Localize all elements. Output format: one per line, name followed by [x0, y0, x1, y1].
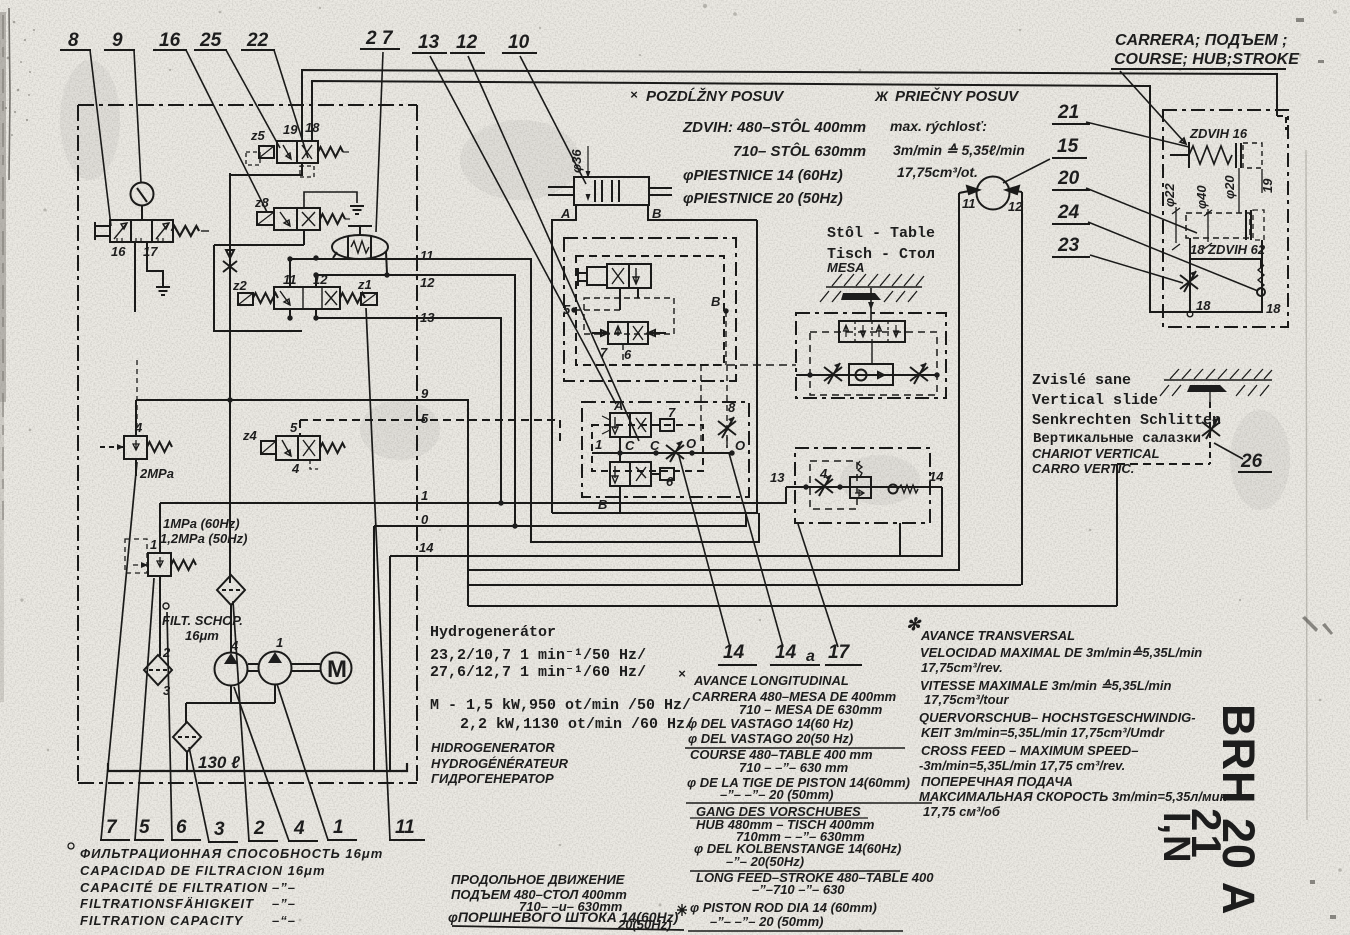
svg-text:18: 18: [1266, 301, 1281, 316]
svg-text:11: 11: [962, 196, 976, 211]
wire 14: [390, 487, 942, 556]
svg-text:3: 3: [163, 683, 171, 698]
valve 16/17 4-way manual: [95, 220, 209, 242]
svg-text:17,75cm³/tour: 17,75cm³/tour: [924, 692, 1009, 707]
svg-text:11: 11: [420, 248, 434, 263]
z2 valve bottom ports and loop: [290, 309, 316, 318]
svg-text:HYDROGÉNÉRATEUR: HYDROGÉNÉRATEUR: [431, 756, 569, 771]
svg-text:MESA: MESA: [827, 260, 865, 275]
bottom number row 7 5 6 3 2 4 1 11: [106, 817, 415, 840]
svg-text:CROSS FEED – MAXIMUM SPEED–: CROSS FEED – MAXIMUM SPEED–: [921, 743, 1138, 758]
scan artifact: left black bar: [0, 12, 6, 702]
svg-text:φ36: φ36: [569, 149, 584, 173]
svg-text:CAPACIDAD DE FILTRACION 16μm: CAPACIDAD DE FILTRACION 16μm: [80, 863, 326, 878]
svg-text:FILTRATION CAPACITY: FILTRATION CAPACITY: [80, 913, 244, 928]
svg-text:17: 17: [828, 642, 851, 663]
svg-text:19: 19: [283, 122, 298, 137]
right branch with spring: [1190, 259, 1261, 268]
svg-text:QUERVORSCHUB– HOCHSTGESCHWINDI: QUERVORSCHUB– HOCHSTGESCHWINDIG-: [919, 710, 1196, 725]
valve A (upper): [602, 413, 674, 437]
svg-text:–”–: –”–: [272, 896, 296, 911]
drive shafts: [248, 664, 320, 671]
svg-text:ФИЛЬТРАЦИОННАЯ СПОСОБНОСТЬ 16: ФИЛЬТРАЦИОННАЯ СПОСОБНОСТЬ 16μm: [80, 846, 383, 861]
FILT SCHOP note: [163, 603, 169, 609]
wire number labels at boundary: [419, 248, 435, 555]
leader 8: [90, 50, 111, 226]
leader 14a: [729, 453, 783, 647]
leader from CARRERA: [1120, 71, 1186, 144]
svg-text:1MPa (60Hz): 1MPa (60Hz): [163, 516, 240, 531]
svg-text:O: O: [735, 438, 745, 453]
throttle 8: [718, 417, 736, 438]
lower valve dash-dot box: [582, 402, 749, 497]
svg-text:16: 16: [159, 30, 181, 51]
svg-text:18: 18: [305, 120, 320, 135]
accumulator ports: [333, 252, 387, 273]
wire 9: [136, 400, 468, 606]
AVANCE TRANSVERSAL block: [906, 615, 1228, 819]
svg-text:AVANCE TRANSVERSAL: AVANCE TRANSVERSAL: [920, 628, 1075, 643]
svg-text:17,75 см³/об: 17,75 см³/об: [923, 804, 1001, 819]
svg-text:φ22: φ22: [1162, 183, 1177, 207]
svg-text:I,N: I,N: [1155, 812, 1197, 864]
pilot valve (top, with cylinder actuator): [578, 264, 651, 288]
valve z5 19 18: [246, 141, 349, 177]
svg-text:2MPa: 2MPa: [139, 466, 174, 481]
check valve with spring: [889, 485, 919, 494]
svg-text:Вертикальные салазки: Вертикальные салазки: [1033, 431, 1201, 447]
svg-text:A: A: [613, 398, 623, 413]
port B label: [723, 308, 728, 313]
leaders 21 20 24 23: [1057, 102, 1080, 256]
svg-text:13: 13: [418, 32, 440, 53]
svg-text:ПОПЕРЕЧНАЯ ПОДАЧА: ПОПЕРЕЧНАЯ ПОДАЧА: [921, 774, 1073, 789]
svg-text:14: 14: [775, 642, 797, 663]
relief valve 1 (1MPa): [125, 503, 196, 656]
pressure compensator: [850, 461, 871, 498]
Stol valve dash-dot box: [796, 313, 946, 398]
svg-text:6: 6: [666, 474, 674, 489]
svg-text:VELOCIDAD MAXIMAL DE 3m/min≙5: VELOCIDAD MAXIMAL DE 3m/min≙5,35L/min: [920, 645, 1202, 660]
svg-text:17: 17: [143, 244, 158, 259]
svg-text:PRIEČNY POSUV: PRIEČNY POSUV: [895, 87, 1020, 105]
svg-text:φ40: φ40: [1194, 185, 1209, 209]
AVANCE LONGITUDINAL block: [678, 666, 934, 929]
svg-text:φ DEL VASTAGO 20(50 Hz): φ DEL VASTAGO 20(50 Hz): [688, 731, 853, 746]
svg-text:1: 1: [421, 488, 428, 503]
svg-text:C: C: [625, 438, 635, 453]
valve z2 11 12 z1: [238, 287, 377, 309]
svg-text:COURSE; HUB;STROKE: COURSE; HUB;STROKE: [1114, 51, 1300, 68]
svg-text:×: ×: [630, 87, 638, 102]
svg-text:z8: z8: [254, 195, 270, 210]
svg-text:12: 12: [420, 275, 435, 290]
svg-text:AVANCE LONGITUDINAL: AVANCE LONGITUDINAL: [693, 673, 849, 688]
leader 12: [468, 56, 639, 441]
svg-text:11: 11: [395, 817, 415, 838]
svg-text:10: 10: [508, 32, 530, 53]
svg-text:O: O: [686, 436, 696, 451]
svg-text:–”– –”– 20 (50mm): –”– –”– 20 (50mm): [720, 787, 833, 802]
svg-text:15: 15: [1057, 136, 1079, 157]
svg-text:7: 7: [106, 817, 118, 838]
center valve assembly outer box: [552, 220, 757, 513]
svg-text:KEIT 3m/min=5,35L/min 17,75cm³: KEIT 3m/min=5,35L/min 17,75cm³/Umdr: [921, 725, 1165, 740]
BRH 20 A stamp: [1155, 704, 1264, 915]
leader 25: [226, 50, 280, 148]
svg-text:Hydrogenerátor: Hydrogenerátor: [430, 624, 556, 641]
svg-text:17,75cm³/rev.: 17,75cm³/rev.: [921, 660, 1003, 675]
return lines to tank: [374, 526, 390, 770]
svg-text:2,2 kW,1130 ot/min /60 Hz/: 2,2 kW,1130 ot/min /60 Hz/: [460, 716, 694, 733]
svg-text:–”–: –”–: [272, 880, 296, 895]
z8 ports down: [290, 230, 316, 287]
labels 14 14a 17: [723, 642, 851, 665]
Stol text: [827, 225, 935, 263]
scan artifact: right scan line: [1306, 150, 1307, 820]
svg-text:3: 3: [214, 819, 225, 840]
filter diamond 2: [144, 655, 172, 685]
CARRERA text: [1114, 32, 1300, 68]
svg-text:5: 5: [421, 411, 429, 426]
top reference number labels: [68, 28, 530, 53]
svg-text:C: C: [650, 438, 660, 453]
svg-text:z1: z1: [357, 277, 372, 292]
svg-text:Senkrechten Schlitten: Senkrechten Schlitten: [1032, 412, 1221, 429]
svg-text:4: 4: [134, 420, 143, 435]
svg-text:φ20: φ20: [1222, 175, 1237, 199]
svg-text:12: 12: [1008, 199, 1023, 214]
svg-text:7: 7: [600, 345, 608, 360]
port 5: [571, 307, 576, 312]
svg-text:17,75cm³/ot.: 17,75cm³/ot.: [897, 164, 978, 180]
cylinder port A pipe: [552, 205, 576, 513]
z5 to X line: [230, 163, 302, 175]
svg-text:9: 9: [112, 30, 123, 51]
svg-text:CHARIOT VERTICAL: CHARIOT VERTICAL: [1032, 446, 1160, 461]
wire 1: [160, 487, 786, 503]
leader 22: [274, 50, 308, 158]
valve lower: [610, 462, 674, 486]
svg-text:8: 8: [728, 400, 736, 415]
zdvih62 cylinder: [1186, 213, 1250, 238]
zdvih16 spring unit: [1170, 142, 1262, 168]
POZDLZNY POSUV text block: [630, 87, 866, 207]
svg-text:φPIESTNICE 14 (60Hz): φPIESTNICE 14 (60Hz): [683, 167, 843, 184]
Hydrogenerator text block: [430, 624, 694, 733]
svg-text:z4: z4: [242, 428, 258, 443]
svg-text:1: 1: [150, 537, 157, 552]
svg-text:Stôl - Table: Stôl - Table: [827, 225, 935, 242]
svg-text:φPIESTNICE 20 (50Hz): φPIESTNICE 20 (50Hz): [683, 190, 843, 207]
svg-text:–“–: –“–: [272, 913, 296, 928]
svg-text:FILTRATIONSFÄHIGKEIT: FILTRATIONSFÄHIGKEIT: [80, 896, 254, 911]
vertical slide symbol: [1160, 369, 1272, 402]
svg-text:21: 21: [1057, 102, 1079, 123]
motor M: [321, 653, 352, 684]
pump suction lines: [186, 604, 275, 771]
throttle 4: [815, 475, 833, 496]
leader 9: [134, 50, 141, 183]
leader 13: [430, 56, 616, 404]
Zvisle sane text: [1032, 372, 1221, 447]
svg-text:7: 7: [668, 405, 676, 420]
table valve lower line: [796, 374, 937, 376]
leader 14: [679, 456, 730, 647]
table valve: [839, 321, 905, 342]
svg-text:POZDĹŽNY POSUV: POZDĹŽNY POSUV: [646, 87, 785, 105]
cylinder port B pipe: [648, 205, 757, 220]
leader 17: [798, 524, 838, 647]
wire 0: [374, 513, 746, 526]
svg-text:1: 1: [276, 635, 283, 650]
svg-text:ZDVIH: 480–STÔL 400mm: ZDVIH: 480–STÔL 400mm: [682, 118, 866, 136]
svg-text:18: 18: [1196, 298, 1211, 313]
svg-text:3m/min ≙ 5,35ℓ/min: 3m/min ≙ 5,35ℓ/min: [893, 142, 1025, 158]
svg-text:✻: ✻: [906, 615, 922, 634]
svg-text:13: 13: [420, 310, 435, 325]
filter diamond 1: [217, 575, 245, 605]
throttle C-O: [666, 441, 684, 462]
svg-text:22: 22: [246, 30, 269, 51]
svg-text:M - 1,5 kW,950 ot/min /50 Hz/: M - 1,5 kW,950 ot/min /50 Hz/: [430, 697, 691, 714]
leader 10: [520, 56, 586, 184]
svg-text:26: 26: [1240, 451, 1263, 472]
svg-text:ПРОДОЛЬНОЕ ДВИЖЕНИЕ: ПРОДОЛЬНОЕ ДВИЖЕНИЕ: [451, 872, 625, 887]
svg-text:B: B: [711, 294, 720, 309]
valve 7/6: [592, 322, 666, 344]
svg-text:2: 2: [253, 818, 265, 839]
svg-text:A: A: [560, 206, 570, 221]
svg-text:11: 11: [283, 272, 297, 287]
svg-text:5: 5: [290, 420, 298, 435]
svg-text:24: 24: [1057, 202, 1080, 223]
svg-text:CAPACITÉ DE FILTRATION: CAPACITÉ DE FILTRATION: [80, 880, 268, 895]
svg-text:1: 1: [333, 817, 344, 838]
svg-text:Vertical slide: Vertical slide: [1032, 392, 1158, 409]
relief valve 4 (2MPa): [100, 360, 172, 476]
left branch down: [1189, 238, 1191, 311]
svg-text:B: B: [652, 206, 661, 221]
svg-text:13: 13: [770, 470, 785, 485]
left enclosure dash-dot boundary: [78, 105, 417, 783]
wire A top: [302, 70, 1277, 142]
drain bus lines: [468, 570, 1117, 606]
svg-text:14: 14: [723, 642, 745, 663]
svg-text:φ DEL VASTAGO 14(60 Hz): φ DEL VASTAGO 14(60 Hz): [688, 716, 853, 731]
pump 1: [215, 653, 248, 686]
hydraulic motor 11/12: [959, 177, 1022, 210]
svg-text:1,2MPa (50Hz): 1,2MPa (50Hz): [160, 531, 247, 546]
svg-text:max. rýchlosť:: max. rýchlosť:: [890, 118, 987, 134]
svg-text:6: 6: [176, 817, 187, 838]
svg-text:–”–710 –”– 630: –”–710 –”– 630: [752, 882, 845, 897]
svg-text:710 – MESA DE 630mm: 710 – MESA DE 630mm: [739, 702, 883, 717]
svg-text:25: 25: [199, 30, 222, 51]
svg-text:M: M: [327, 656, 347, 683]
drain dashed line right: [725, 311, 727, 365]
svg-text:×: ×: [678, 666, 686, 681]
svg-text:23: 23: [1057, 235, 1080, 256]
pump 2: [259, 652, 292, 685]
svg-text:МАКСИМАЛЬНАЯ СКОРОСТЬ 3m/min=: МАКСИМАЛЬНАЯ СКОРОСТЬ 3m/min=5,35л/мин: [919, 789, 1228, 804]
svg-text:8: 8: [68, 30, 79, 51]
cylinder: [548, 146, 672, 205]
PRIECNY POSUV text block: [874, 87, 1025, 180]
svg-text:23,2/10,7 1 min⁻¹/50 Hz/: 23,2/10,7 1 min⁻¹/50 Hz/: [430, 647, 646, 664]
table symbol (Stol): [820, 274, 924, 321]
svg-text:φ PISTON ROD DIA 14 (60mm): φ PISTON ROD DIA 14 (60mm): [690, 900, 877, 915]
svg-text:Ж: Ж: [874, 88, 889, 104]
svg-text:14: 14: [929, 469, 944, 484]
svg-text:2: 2: [162, 645, 171, 660]
svg-text:1: 1: [595, 437, 602, 452]
leader 16: [186, 50, 267, 212]
drain from flow box: [899, 523, 901, 556]
svg-text:5: 5: [139, 817, 150, 838]
svg-text:-3m/min=5,35L/min 17,75 cm³/r: -3m/min=5,35L/min 17,75 cm³/rev.: [919, 758, 1125, 773]
svg-text:710 – –”– 630 mm: 710 – –”– 630 mm: [739, 760, 849, 775]
right assembly ZDVIH box: [1163, 110, 1288, 327]
inner small dashed box: [584, 298, 674, 334]
svg-text:710– STÔL 630mm: 710– STÔL 630mm: [733, 142, 866, 160]
wire 5 dashed: [300, 420, 560, 444]
svg-text:4: 4: [819, 466, 828, 481]
bottom leaders: [101, 462, 137, 840]
svg-text:0: 0: [421, 512, 429, 527]
center assembly dash-dot box: [564, 238, 736, 381]
flow control line 13-14: [786, 486, 942, 488]
svg-text:16: 16: [111, 244, 126, 259]
valve z4: [261, 436, 345, 469]
filtration capacity text block: [68, 843, 74, 849]
svg-text:CARRO VERTIC.: CARRO VERTIC.: [1032, 461, 1134, 476]
svg-text:27,6/12,7 1 min⁻¹/60 Hz/: 27,6/12,7 1 min⁻¹/60 Hz/: [430, 664, 646, 681]
filter diamond 3: [173, 722, 201, 752]
wire 11: [290, 259, 759, 542]
svg-text:Zvislé sane: Zvislé sane: [1032, 372, 1131, 389]
flow control assembly dash-dot box: [795, 448, 930, 523]
svg-text:CARRERA; ПОДЪЕМ ;: CARRERA; ПОДЪЕМ ;: [1115, 32, 1288, 49]
wire 12: [316, 275, 515, 526]
leader 26: [1214, 443, 1243, 459]
label 15 leader: [1003, 159, 1050, 183]
pressure gauge: [131, 183, 154, 222]
wire B top: [312, 81, 1262, 312]
leader 27: [376, 52, 383, 232]
svg-text:12: 12: [456, 32, 478, 53]
tank bottom: [108, 763, 407, 771]
svg-text:a: a: [806, 648, 815, 665]
svg-text:20: 20: [1057, 168, 1080, 189]
mid port line: [592, 437, 732, 462]
svg-text:–”– –”– 20 (50mm): –”– –”– 20 (50mm): [710, 914, 823, 929]
svg-text:5: 5: [563, 302, 571, 317]
svg-text:B: B: [598, 497, 607, 512]
wire 13: [316, 318, 501, 503]
valve z8: [257, 208, 350, 230]
prodolnoe dvizhenie block: [448, 872, 679, 932]
valve 16/17 drain lines: [135, 242, 163, 312]
svg-text:16μm: 16μm: [185, 628, 219, 643]
svg-text:130 ℓ: 130 ℓ: [198, 753, 240, 772]
svg-text:9: 9: [421, 386, 429, 401]
svg-text:18 ZDVIH 62: 18 ZDVIH 62: [1190, 242, 1266, 257]
svg-text:4: 4: [293, 818, 305, 839]
arrow and X restrictor on line to pump: [229, 173, 231, 583]
svg-text:z5: z5: [250, 128, 266, 143]
svg-text:z2: z2: [232, 278, 248, 293]
center assembly inner dashed box: [576, 256, 724, 365]
svg-text:4: 4: [291, 461, 300, 476]
motor feed verticals: [959, 192, 1022, 585]
svg-text:14: 14: [419, 540, 434, 555]
svg-text:HIDROGENERATOR: HIDROGENERATOR: [431, 740, 555, 755]
svg-text:6: 6: [624, 347, 632, 362]
stray pen mark: [677, 904, 687, 916]
lower inner dashed box: [592, 425, 703, 471]
slide drain dashed: [1209, 402, 1211, 464]
accumulator: [332, 226, 388, 259]
svg-text:ГИДРОГЕНЕРАТОР: ГИДРОГЕНЕРАТОР: [431, 771, 554, 786]
svg-text:VITESSE MAXIMALE 3m/min ≙5,35L: VITESSE MAXIMALE 3m/min ≙5,35L/min: [920, 678, 1172, 693]
svg-text:2 7: 2 7: [365, 28, 394, 49]
svg-text:–”– 20(50Hz): –”– 20(50Hz): [726, 854, 804, 869]
svg-text:ZDVIH 16: ZDVIH 16: [1189, 126, 1248, 141]
